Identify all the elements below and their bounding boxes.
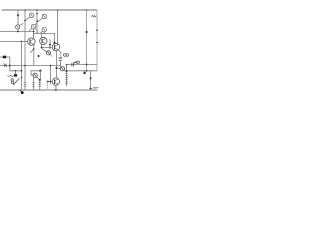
wire vertical x86.5 [86, 10, 88, 71]
wire resistor feed y57 [0, 56, 10, 58]
node dot x86.5 y70.8 [86, 70, 88, 72]
resistor R5 ticks x39.8 [39, 80, 41, 90]
arrow left end base line [47, 81, 49, 83]
node dot x66.5 y70.8 [66, 70, 68, 72]
wire x60.5 short vertical [60, 60, 62, 66]
diode D2 vertical x50 [49, 40, 51, 48]
node dot x41.5 y47.6 [41, 47, 43, 49]
wire vertical x9.8 [9, 57, 11, 71]
wire x54.5 drop from y33.5 [54, 34, 56, 43]
node dot rail x57.5 [57, 9, 59, 11]
wire Q4 down lead x33.5 [33, 29, 35, 38]
wire x40.4 drop [39, 71, 41, 80]
transistor Q1 diff pair circle [28, 38, 35, 45]
label squiggle left [8, 75, 15, 76]
node dot tail x38.5 y56 [38, 55, 40, 57]
tick x97 y30.5 [96, 29, 98, 31]
wire left lower line y70.8 [10, 70, 22, 72]
node dot x39.8 y80 [39, 79, 41, 81]
node dot x56.5 y68 [55, 67, 57, 69]
wire Q4 collector slant to x37 [35, 23, 37, 25]
label squiggle bottom right [93, 87, 98, 88]
wire output line y70.8 [64, 70, 97, 72]
wire Q9 emitter slants [33, 77, 35, 80]
node dot rail x55.9 [55, 89, 57, 91]
node dot x37 y21.5 [37, 21, 39, 23]
node dot x86.5 y64.5 [86, 64, 88, 66]
wire Q2m emitter slant [38, 18, 43, 22]
transistor Q2m mirror circle [42, 14, 47, 19]
wire mid lower line y70.8 [31, 70, 40, 72]
wire top supply rail [2, 9, 97, 11]
wire mid line y65.5 [0, 65, 61, 67]
ground terminal blob [20, 90, 22, 92]
wire diagonal to ground tap [14, 79, 19, 85]
resistor zigzag top right [92, 15, 97, 17]
transistor Q9 circle [33, 73, 37, 77]
speaker branch x90.5 [90, 71, 92, 90]
node dot y70.8 x15.5 [15, 70, 17, 72]
wire vertical x57.5 from rail [57, 10, 59, 44]
transistor Q5 circle [42, 27, 47, 32]
transistor Q8 vbe circle [60, 67, 64, 71]
wire Q1 emitter down x33.8 [33, 45, 35, 66]
wire Q3 collector slant [19, 24, 23, 26]
transistor Q10 output circle [52, 78, 59, 85]
wire slant to Q6 [42, 49, 46, 52]
transistor Q1m mirror circle [29, 13, 34, 18]
wire vertical x25 [24, 10, 26, 80]
wire slant from dot to Q8 [57, 67, 60, 69]
node dot rail x25 [24, 9, 26, 11]
wire x41.5 collector drop [41, 34, 43, 38]
resistor R3 ticks x25 [24, 80, 26, 90]
diode arrow on x90.5 [90, 78, 92, 80]
node dot x86.5 y32 [86, 31, 88, 33]
transistor Q2 diff pair circle [40, 37, 47, 44]
resistor R1 filled box [3, 56, 6, 59]
wire right edge vertical x97 [96, 10, 98, 71]
diode D1 on x18 [17, 15, 20, 17]
node dot x50.5 y65.5 [50, 65, 52, 67]
terminal dot left end of y70.8 [84, 71, 86, 72]
wire Q5 emitter slant [40, 31, 42, 33]
wire Q4 slant to y33.5 [35, 28, 38, 33]
wire x31 stub to Q9 [30, 71, 32, 75]
capacitor bars x60 [59, 57, 62, 60]
node dot y41.5 x21.5 [21, 41, 23, 43]
wire base line y81.5 [48, 81, 53, 83]
label 88 [64, 54, 67, 57]
node dot x25 y20.5 [24, 20, 26, 22]
capacitor C2 black box [15, 71, 17, 74]
wire bottom ground rail [0, 89, 97, 91]
node dot x21.5 y70.8 [21, 70, 23, 72]
node dot x33.5 y31.5 [33, 31, 35, 33]
tick x97 y42.5 [96, 41, 98, 43]
wire rail y33.5 mirror output line [34, 33, 55, 35]
capacitor C1 input component [4, 64, 7, 67]
transistor Q6 circle [47, 51, 51, 55]
node dot x9.8 y65.5 [9, 65, 11, 67]
wire Q1 emitter slant arrow [31, 48, 34, 52]
node dot rail x86.5 [86, 9, 88, 11]
capacitor C4 on y64.5 [72, 63, 74, 66]
wire VAS collector down x56.5 [55, 51, 57, 78]
wire Q6 tail [50, 55, 52, 57]
wire x21.5 long vertical [21, 42, 23, 91]
wire vertical x18 from rail [17, 10, 19, 32]
resistor R4 ticks x33.5 [32, 80, 34, 90]
node dot x18 y31.5 [17, 31, 19, 33]
wire Q5 down lead [43, 32, 45, 34]
node blob x54.5 y43 [54, 42, 56, 44]
wire Q4 emitter slant [30, 28, 32, 31]
wire VAS emitter slant [59, 50, 61, 53]
wire Q10 emitter to rail [55, 85, 57, 90]
node dot x21.5 y77.5 [21, 77, 23, 79]
node dot x25 y65.5 [24, 65, 26, 67]
resistor R7 vertical ticks x66.5 [66, 65, 68, 87]
wire Q2 emitter down x41.5 [41, 44, 43, 47]
wire Q1m emitter slant [26, 17, 30, 21]
transistor Q7 VAS circle [52, 43, 59, 50]
wire VAS feed y47.5 [42, 47, 53, 49]
node dot rail x37 [36, 9, 38, 11]
transistor Q3 circle on x18 [16, 25, 20, 29]
capacitor C2 rings [11, 79, 14, 82]
wire rail y31.5 input bias line [0, 31, 34, 33]
transistor Q4 circle [31, 24, 36, 29]
inline component dash+circle on y64.5 [74, 61, 77, 63]
node dot x50.5 y81.5 [50, 81, 52, 83]
wire vertical x37 [36, 10, 38, 34]
node dot x37 y13.5 [36, 13, 38, 15]
wire x50.5 drop from y65.5 [50, 66, 52, 85]
node dot x40.4 y70.8 [39, 70, 41, 72]
wire feedback line y64.5 [67, 64, 97, 66]
node dot x66.5 y64.5 [66, 64, 68, 66]
wire input base line y41.5 [0, 41, 28, 43]
